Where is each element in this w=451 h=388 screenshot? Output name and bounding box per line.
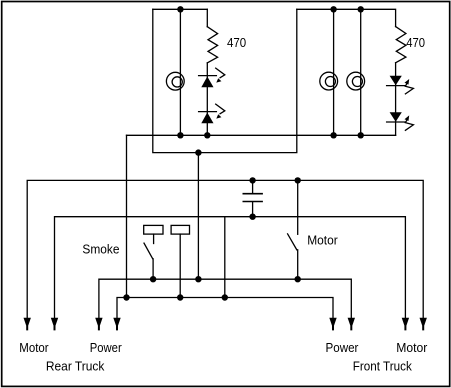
wire rear lamp branch [179,9,181,135]
terminal block jumper [171,225,189,297]
wire rear LED branch top [206,9,208,26]
svg-text:Rear Truck: Rear Truck [46,358,105,373]
switch S1 Smoke [144,225,163,279]
lamp L3 (front) [347,72,365,90]
terminal arrow rear power 2 [113,318,120,331]
terminal arrow front power 1 [329,318,336,331]
wire front LED branch [395,63,397,136]
wire power bus B [55,217,406,319]
wire top bus of front lamp group [297,9,396,26]
svg-text:470: 470 [227,35,246,50]
LED D1 [199,68,225,87]
junction bus A / motor switch [295,177,301,183]
junction bus D / x224 drop [222,294,228,300]
junction bus C / smoke switch [150,276,156,282]
wire front lamp branch 2 [360,9,362,135]
lamp L2 (front) [320,72,338,90]
junction bus D / jumper [177,294,183,300]
wire hot bus drop (x198) [197,153,199,280]
switch S2 Motor [288,180,298,279]
svg-text:Power: Power [90,340,122,355]
LED D4 [387,112,414,130]
wire connecting rear and front group left branches (hot bus) [153,9,297,152]
wire power pickup bus D [117,298,333,319]
junction bus D / common drop [123,294,129,300]
wire bus B to bus D drop (x224) [224,217,226,298]
svg-text:470: 470 [406,35,425,50]
capacitor C1 [243,180,262,216]
junction bus A / capacitor [249,177,255,183]
svg-text:Motor: Motor [396,340,428,355]
terminal arrow rear motor 2 [51,318,58,331]
resistor R1 470 [207,27,217,63]
junction rear bottom 1 [177,132,183,138]
lamp L1 (rear) [166,72,184,90]
wire front lamp branch 1 [333,9,335,135]
junction bus B / capacitor [249,214,255,220]
svg-text:Power: Power [326,340,359,355]
terminal arrow rear power 1 [95,318,102,331]
wire motor bus A [27,180,423,318]
junction rear bottom 2 [204,132,210,138]
LED D3 [387,76,414,94]
svg-text:Front Truck: Front Truck [353,358,412,373]
junction hot bus tap [195,149,201,155]
wire lamp-group common bus (y135) [127,134,396,136]
terminal arrow front motor 2 [420,318,427,331]
terminal arrow rear motor 1 [24,318,31,331]
terminal arrow front motor 1 [402,318,409,331]
junction rear top [177,6,183,12]
wire top bus of rear lamp group [153,8,208,10]
svg-text:Motor: Motor [307,232,338,247]
junction front bottom 1 [330,132,336,138]
svg-text:Smoke: Smoke [82,241,119,256]
terminal arrow front power 2 [348,318,355,331]
LED D2 [199,104,225,123]
wire rear LED branch [206,63,208,135]
resistor R2 470 [396,27,406,63]
junction front top 1 [330,6,336,12]
wire common bus drop (x126) [126,135,128,297]
junction bus C / hot drop [195,276,201,282]
svg-text:Motor: Motor [19,340,49,355]
wire smoke bus C [99,279,351,318]
junction front top 2 [358,6,364,12]
junction front bottom 2 [358,132,364,138]
junction bus C / motor switch [295,276,301,282]
